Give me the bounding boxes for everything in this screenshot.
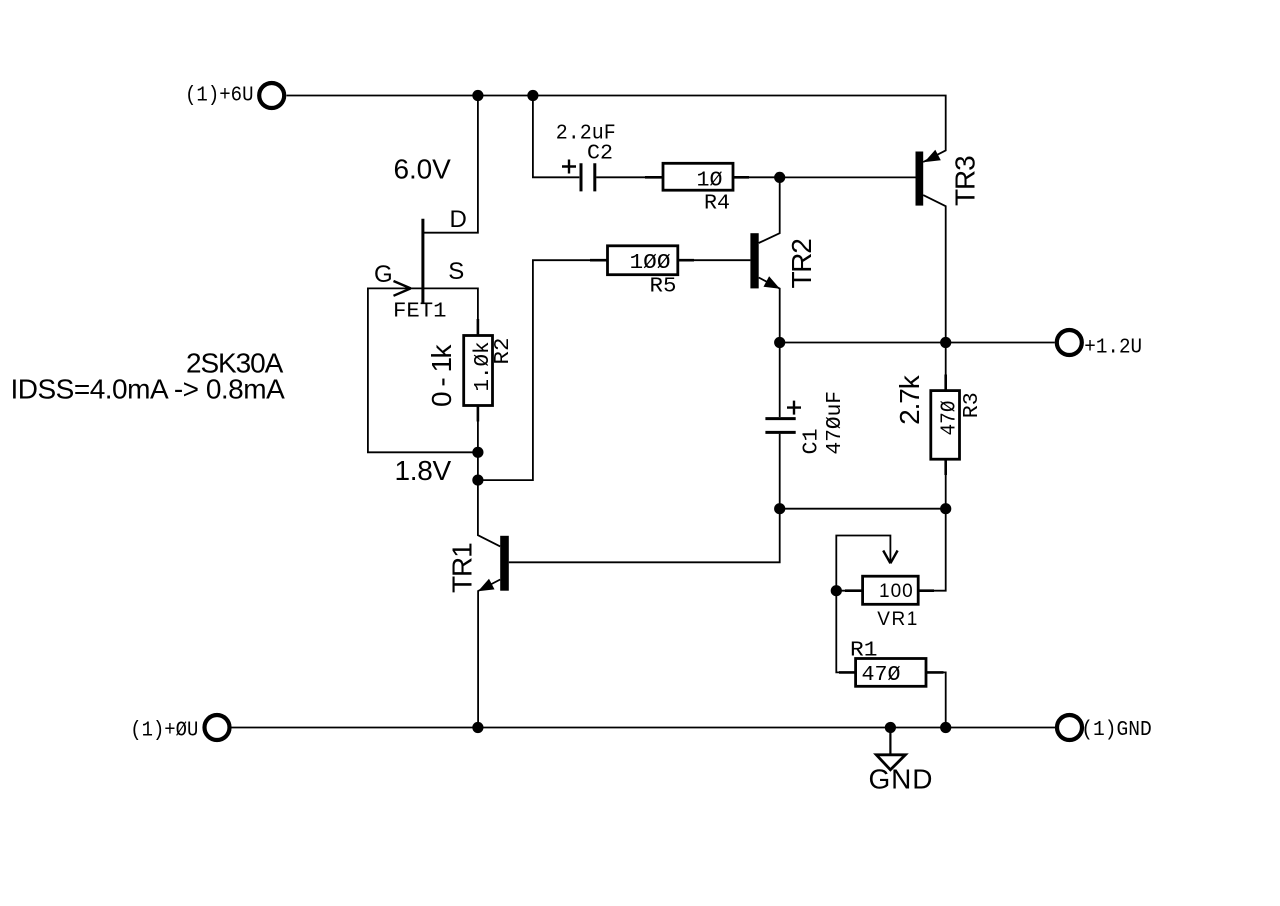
svg-text:TR2: TR2 xyxy=(786,239,817,289)
svg-text:C2: C2 xyxy=(587,142,613,166)
svg-text:G: G xyxy=(374,261,393,288)
svg-text:+1.2U: +1.2U xyxy=(1084,336,1142,360)
svg-text:47ØuF: 47ØuF xyxy=(823,391,847,455)
svg-text:C1: C1 xyxy=(800,429,824,455)
svg-text:47Ø: 47Ø xyxy=(938,400,962,435)
svg-text:0 - 1k: 0 - 1k xyxy=(426,343,457,407)
svg-text:(1)+6U: (1)+6U xyxy=(185,84,254,108)
svg-text:47Ø: 47Ø xyxy=(862,663,901,687)
svg-text:TR1: TR1 xyxy=(447,543,478,593)
svg-text:6.0V: 6.0V xyxy=(394,153,452,184)
svg-text:GND: GND xyxy=(869,764,934,795)
svg-text:R1: R1 xyxy=(850,639,878,663)
svg-text:100: 100 xyxy=(879,581,914,602)
svg-text:R3: R3 xyxy=(960,392,984,418)
svg-text:R2: R2 xyxy=(491,338,515,365)
svg-text:FET1: FET1 xyxy=(393,300,447,324)
svg-text:R5: R5 xyxy=(650,275,677,299)
svg-text:IDSS=4.0mA -> 0.8mA: IDSS=4.0mA -> 0.8mA xyxy=(11,373,286,404)
svg-text:VR1: VR1 xyxy=(877,609,918,630)
svg-text:1.8V: 1.8V xyxy=(395,455,452,486)
svg-text:2.7k: 2.7k xyxy=(894,374,925,425)
svg-text:S: S xyxy=(448,258,464,285)
svg-text:(1)+ØU: (1)+ØU xyxy=(130,719,198,743)
svg-text:TR3: TR3 xyxy=(950,156,981,206)
svg-text:1Ø: 1Ø xyxy=(697,169,723,193)
svg-text:D: D xyxy=(450,206,467,233)
svg-text:(1)GND: (1)GND xyxy=(1081,718,1152,742)
svg-text:1ØØ: 1ØØ xyxy=(630,251,671,275)
svg-text:R4: R4 xyxy=(704,192,730,216)
